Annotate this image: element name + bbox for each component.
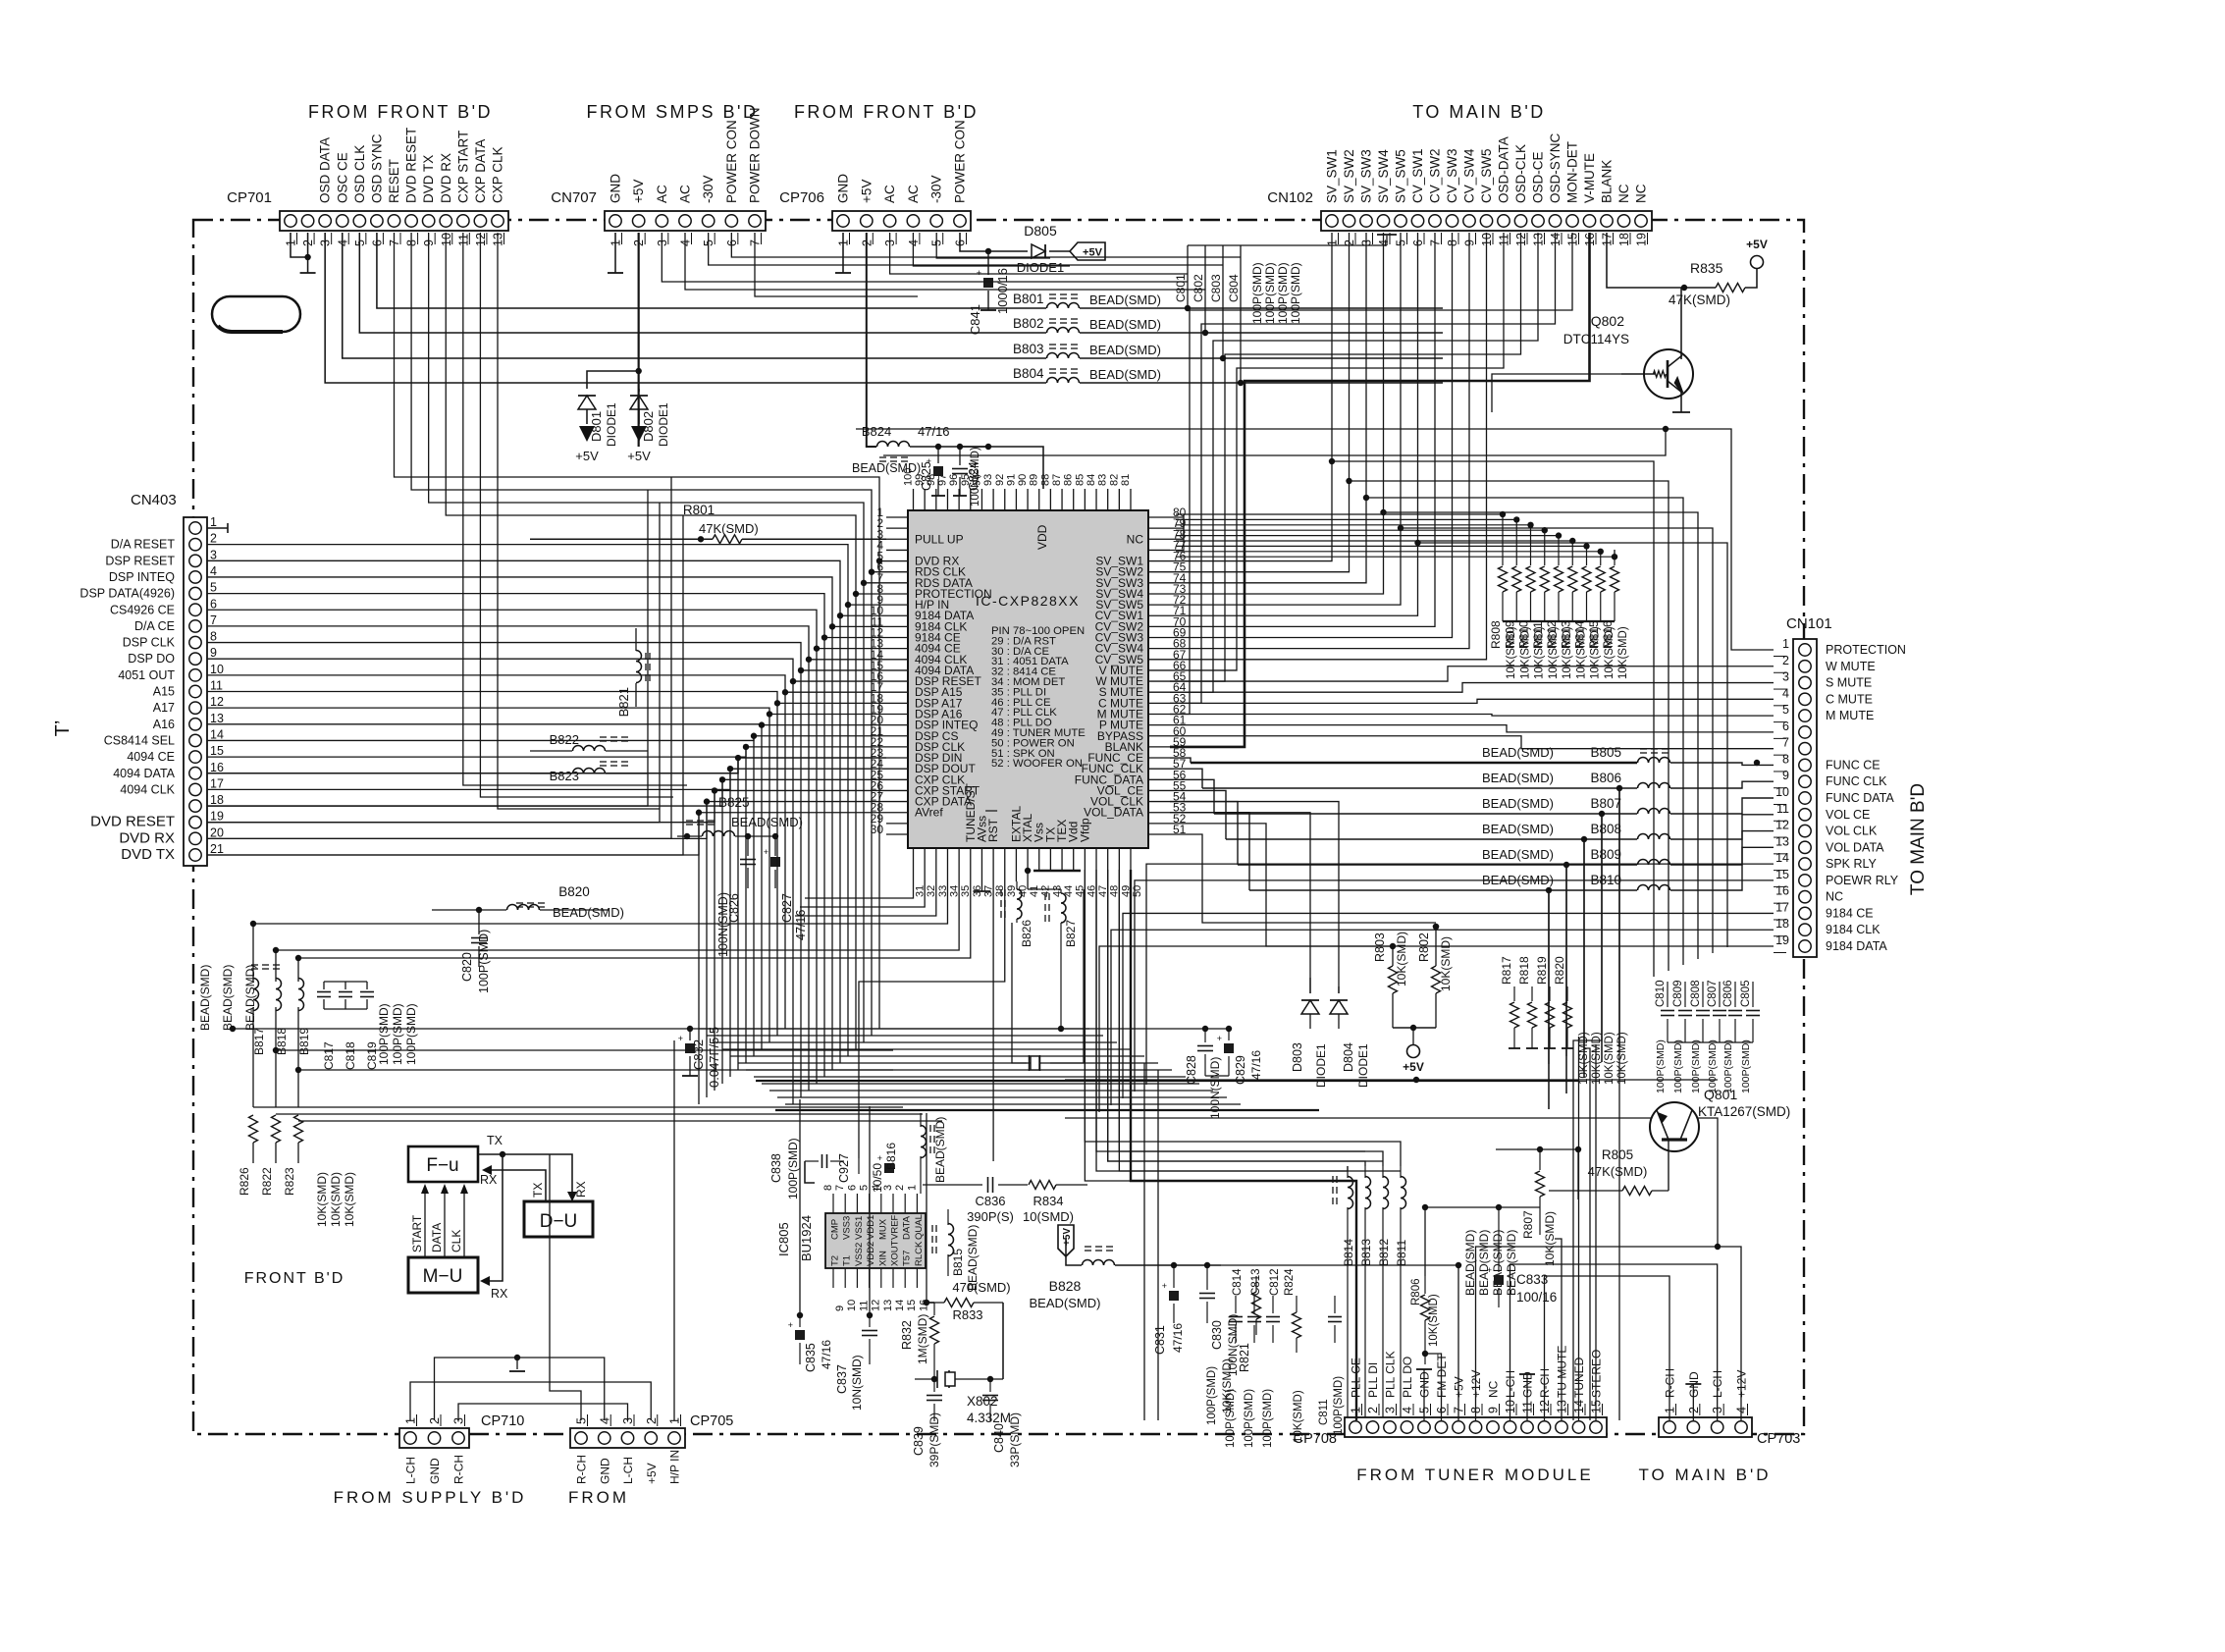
svg-text:OSD-CLK: OSD-CLK <box>1513 144 1528 203</box>
svg-text:TX: TX <box>531 1183 545 1198</box>
svg-text:4.332M: 4.332M <box>967 1411 1011 1425</box>
svg-text:91: 91 <box>1005 474 1017 486</box>
svg-text:9: 9 <box>1782 769 1789 782</box>
svg-text:7: 7 <box>834 1185 846 1191</box>
IC right pin59 blank long wire right <box>1170 746 1245 748</box>
svg-text:C811: C811 <box>1318 1399 1330 1425</box>
svg-text:BLANK: BLANK <box>1600 160 1615 203</box>
svg-text:AVref: AVref <box>915 806 943 820</box>
svg-text:FROM TUNER MODULE: FROM TUNER MODULE <box>1356 1465 1593 1484</box>
Q802 base feed wire <box>1492 374 1621 412</box>
svg-text:Vfdp: Vfdp <box>1078 818 1091 842</box>
svg-text:11: 11 <box>858 1301 870 1311</box>
bundle verticals down to tuner left pins <box>1157 1070 1159 1420</box>
svg-text:86: 86 <box>1063 474 1075 486</box>
IC pins 46-50 deep drops to tuner plls <box>1085 870 1348 1181</box>
horizontal taps to R808-R816 tops <box>1176 513 1503 515</box>
svg-text:GND: GND <box>609 174 623 203</box>
svg-text:84: 84 <box>1086 474 1097 486</box>
wire ladder to IC pin 26 <box>207 790 886 822</box>
svg-text:R805: R805 <box>1602 1147 1633 1162</box>
svg-text:B813: B813 <box>1359 1239 1373 1266</box>
svg-text:CV_SW3: CV_SW3 <box>1445 148 1459 203</box>
svg-text:BEAD(SMD): BEAD(SMD) <box>553 905 624 920</box>
capacitors C826 C827 <box>745 833 751 839</box>
wire CN102 pin 15 staircase to IC <box>1170 233 1572 714</box>
svg-text:B823: B823 <box>550 769 579 783</box>
beads B817 B818 B819 with caps C817-C819 <box>252 967 254 982</box>
svg-text:BEAD(SMD): BEAD(SMD) <box>1089 367 1161 382</box>
bead B808 row <box>1226 838 1637 840</box>
connector CP703 <box>1659 1417 1752 1437</box>
wire B824 to IC VDD <box>987 446 989 448</box>
svg-text:L-CH: L-CH <box>621 1457 635 1484</box>
svg-text:+: + <box>1162 1281 1167 1291</box>
svg-text:C839: C839 <box>912 1426 926 1456</box>
svg-text:R819: R819 <box>1535 956 1549 985</box>
svg-text:1M(SMD): 1M(SMD) <box>916 1314 929 1364</box>
svg-text:B803: B803 <box>1013 342 1044 356</box>
svg-text:2: 2 <box>1782 654 1789 667</box>
wire bottom bundle row 6 <box>738 1062 1158 1064</box>
svg-text:10K(SMD): 10K(SMD) <box>1562 626 1573 679</box>
capacitors C828 C829 <box>1202 1026 1208 1032</box>
svg-text:B802: B802 <box>1013 316 1044 331</box>
svg-text:18: 18 <box>210 793 224 807</box>
svg-text:470(SMD): 470(SMD) <box>952 1280 1010 1295</box>
svg-text:3: 3 <box>210 548 217 561</box>
svg-text:100P(SMD): 100P(SMD) <box>391 1003 404 1065</box>
svg-text:C804: C804 <box>1227 274 1241 302</box>
svg-text:SV_SW4: SV_SW4 <box>1376 149 1391 203</box>
svg-text:S MUTE: S MUTE <box>1826 676 1872 690</box>
svg-text:AC: AC <box>906 185 921 203</box>
svg-text:100P(SMD): 100P(SMD) <box>786 1138 800 1199</box>
svg-text:10K(SMD): 10K(SMD) <box>1395 932 1408 986</box>
svg-text:GND: GND <box>428 1458 442 1484</box>
svg-text:19: 19 <box>210 810 224 824</box>
svg-text:PLL DI: PLL DI <box>1366 1362 1380 1398</box>
svg-text:FUNC CE: FUNC CE <box>1826 758 1881 772</box>
capacitor C835 47/16 <box>799 1315 801 1327</box>
svg-text:RST: RST <box>986 818 1000 842</box>
svg-text:OSC CE: OSC CE <box>335 152 349 203</box>
capacitors C812 C813 C814 and resistor R824 <box>1235 1296 1237 1313</box>
svg-text:F−u: F−u <box>426 1155 458 1176</box>
stadium blob <box>212 296 300 332</box>
svg-text:TX: TX <box>487 1134 503 1147</box>
svg-text:DSP CLK: DSP CLK <box>123 636 176 650</box>
svg-text:96: 96 <box>948 474 960 486</box>
svg-text:QUAL: QUAL <box>914 1214 925 1240</box>
bead B828 with +5V flag <box>1058 1225 1074 1256</box>
svg-text:12: 12 <box>871 1300 882 1311</box>
CP710 CP705 risers <box>410 1382 651 1420</box>
svg-text:R822: R822 <box>260 1167 274 1196</box>
wire CN101 pin 17 to bottom bundle <box>1123 913 1774 1098</box>
wire CN101 pin 14 to bottom bundle <box>1146 864 1774 1085</box>
svg-text:8: 8 <box>210 630 217 644</box>
svg-text:PLL DO: PLL DO <box>1401 1357 1414 1398</box>
CN101 pin1 protection wire long route <box>856 429 1774 650</box>
svg-text:100P(SMD): 100P(SMD) <box>1225 1389 1237 1448</box>
bead B805 row <box>1191 762 1637 764</box>
svg-text:RLCK: RLCK <box>914 1241 925 1266</box>
CN403 rows 19-21 up-turn fan <box>207 490 648 806</box>
svg-text:13: 13 <box>1775 834 1789 848</box>
svg-text:83: 83 <box>1097 474 1109 486</box>
wire ladder to IC pin 21 <box>207 736 886 741</box>
svg-text:21: 21 <box>210 842 224 856</box>
svg-text:GND: GND <box>836 174 851 203</box>
IC pin37 AVss ground <box>980 870 982 891</box>
bold vss bus under IC <box>1033 870 1081 872</box>
svg-text:B826: B826 <box>1020 920 1033 947</box>
svg-text:+: + <box>788 1320 793 1330</box>
svg-text:B811: B811 <box>1395 1240 1408 1266</box>
resistor R806 10K <box>1424 1276 1426 1294</box>
long wire y464 <box>883 429 1666 455</box>
svg-text:B807: B807 <box>1590 796 1621 811</box>
svg-text:4094 DATA: 4094 DATA <box>113 767 175 780</box>
bold bundle rows <box>756 1080 1578 1082</box>
IC left pin stubs and numbers <box>886 516 908 518</box>
resistors R826 R822 R823 <box>249 1115 258 1143</box>
svg-text:D802: D802 <box>641 411 656 442</box>
svg-text:DTC114YS: DTC114YS <box>1563 332 1629 346</box>
block D-U <box>524 1201 593 1237</box>
Q801 emitter base collector wires <box>1065 1079 1718 1081</box>
svg-text:TO MAIN B'D: TO MAIN B'D <box>1412 102 1546 122</box>
svg-text:BEAD(SMD): BEAD(SMD) <box>1482 822 1554 836</box>
wire bottom bundle row 4 <box>722 1048 1131 1050</box>
svg-text:1: 1 <box>906 1185 918 1191</box>
svg-text:100P(SMD): 100P(SMD) <box>1244 1389 1255 1448</box>
svg-text:BEAD(SMD): BEAD(SMD) <box>243 965 257 1031</box>
svg-text:85: 85 <box>1074 474 1086 486</box>
wire ladder to IC pin 14 <box>207 626 886 660</box>
svg-text:BEAD(SMD): BEAD(SMD) <box>1482 796 1554 811</box>
svg-text:R-CH: R-CH <box>452 1455 466 1484</box>
svg-text:100P(SMD): 100P(SMD) <box>1707 1039 1719 1093</box>
svg-text:FROM FRONT B'D: FROM FRONT B'D <box>794 102 979 122</box>
wire CN102 pin 11 staircase to IC <box>1170 233 1504 670</box>
svg-text:RX: RX <box>491 1287 508 1301</box>
svg-text:+: + <box>1217 1034 1222 1043</box>
svg-text:DVD TX: DVD TX <box>421 155 436 203</box>
svg-text:BEAD(SMD): BEAD(SMD) <box>933 1117 947 1183</box>
svg-text:C808: C808 <box>1690 981 1702 1008</box>
svg-text:AC: AC <box>655 185 669 203</box>
svg-text:L-CH: L-CH <box>404 1457 418 1484</box>
svg-text:13: 13 <box>882 1300 894 1311</box>
svg-text:10K(SMD): 10K(SMD) <box>1617 626 1629 679</box>
svg-text:V-MUTE: V-MUTE <box>1582 153 1597 203</box>
svg-text:100P(SMD): 100P(SMD) <box>404 1003 418 1065</box>
svg-text:RX: RX <box>480 1173 498 1187</box>
svg-text:11: 11 <box>210 679 223 693</box>
wire CN101 pin 18 to bottom bundle <box>1111 930 1774 1105</box>
svg-text:10N(SMD): 10N(SMD) <box>850 1355 864 1411</box>
pll wires to beads B811-B814 <box>1085 870 1401 1166</box>
svg-text:R817: R817 <box>1500 956 1513 985</box>
wire IC pin 63 to CN101 pin 4 <box>1170 699 1774 703</box>
svg-text:+5V: +5V <box>1746 238 1768 251</box>
wire IC pin 64 to CN101 pin 3 <box>1170 683 1774 693</box>
wire IC pin 65 to CN101 pin 2 <box>1170 666 1774 681</box>
svg-text:CP701: CP701 <box>227 189 272 206</box>
svg-text:Q802: Q802 <box>1591 313 1624 329</box>
wire ladder to IC pin 19 <box>207 708 886 714</box>
arrows START DATA CLK between M-U and F-u <box>424 1190 426 1257</box>
wire CN102 pin 2 to IC pin 75 <box>1170 233 1350 572</box>
svg-text:CN403: CN403 <box>131 492 177 508</box>
svg-text:AC: AC <box>678 185 693 203</box>
svg-text:+: + <box>1487 1265 1492 1275</box>
bead B806 row <box>1202 787 1637 789</box>
svg-text:MUX: MUX <box>877 1218 888 1240</box>
svg-text:BEAD(SMD): BEAD(SMD) <box>1089 293 1161 307</box>
svg-text:CLK: CLK <box>450 1230 463 1252</box>
verticals from bundle down to IC805 <box>799 1099 801 1315</box>
svg-text:10K(SMD): 10K(SMD) <box>1534 626 1546 679</box>
bead B815 <box>931 1225 933 1232</box>
R805 wire to bundle <box>1577 1149 1579 1199</box>
svg-text:R834: R834 <box>1033 1194 1063 1208</box>
svg-text:A15: A15 <box>153 685 175 699</box>
svg-text:100/16: 100/16 <box>1516 1290 1557 1305</box>
svg-text:R832: R832 <box>900 1320 914 1350</box>
diodes D801 D802 from CN707 +5V <box>638 233 640 447</box>
svg-text:100P(SMD): 100P(SMD) <box>1690 1039 1702 1093</box>
svg-text:5: 5 <box>210 581 217 595</box>
svg-text:BEAD(SMD): BEAD(SMD) <box>852 461 921 475</box>
svg-text:CXP DATA: CXP DATA <box>473 139 488 203</box>
svg-text:C830: C830 <box>1210 1320 1224 1350</box>
svg-text:11: 11 <box>1776 802 1789 816</box>
svg-text:VSS1: VSS1 <box>854 1216 865 1240</box>
svg-text:4094 CE: 4094 CE <box>127 750 175 764</box>
ground at CP701 pins 1-2 <box>291 233 308 257</box>
svg-text:CP710: CP710 <box>481 1413 524 1429</box>
svg-text:R802: R802 <box>1417 933 1431 962</box>
svg-text:NC: NC <box>1634 184 1649 203</box>
svg-text:C801: C801 <box>1174 274 1188 302</box>
svg-text:93: 93 <box>982 474 994 486</box>
svg-text:POWER CON: POWER CON <box>724 120 739 203</box>
svg-text:C807: C807 <box>1707 981 1719 1008</box>
svg-text:BEAD(SMD): BEAD(SMD) <box>1491 1230 1505 1296</box>
svg-text:2: 2 <box>210 532 217 546</box>
svg-text:C805: C805 <box>1740 981 1752 1008</box>
svg-text:B825: B825 <box>718 795 750 810</box>
svg-text:C812: C812 <box>1269 1269 1281 1297</box>
svg-text:10K(SMD): 10K(SMD) <box>315 1172 329 1227</box>
svg-text:C806: C806 <box>1722 981 1734 1008</box>
svg-text:C810: C810 <box>1655 981 1667 1008</box>
svg-text:2: 2 <box>1366 1407 1380 1413</box>
verticals from bead rows down to tuner area <box>1618 788 1620 1420</box>
svg-text:14: 14 <box>894 1300 906 1311</box>
wire bottom bundle row 2 <box>707 1035 1103 1037</box>
svg-text:10K(SMD): 10K(SMD) <box>1604 1032 1616 1085</box>
CN707 CP706 power rails to the right <box>662 233 1188 282</box>
svg-text:15: 15 <box>1775 868 1789 881</box>
capacitor C811 100P <box>1334 1296 1336 1313</box>
svg-text:7: 7 <box>210 613 217 627</box>
wire bottom bundle row 10 <box>769 1090 1213 1092</box>
svg-text:DSP DO: DSP DO <box>128 652 175 666</box>
svg-text:9184 DATA: 9184 DATA <box>1826 939 1887 953</box>
wire IC pin 60 to CN101 pin 7 <box>1170 736 1774 749</box>
wire ladder to IC pin 7 <box>429 233 886 583</box>
svg-text:H/P IN: H/P IN <box>668 1450 682 1484</box>
svg-text:16: 16 <box>210 761 224 774</box>
wire CN102 pin 12 staircase to IC <box>1170 233 1521 681</box>
svg-text:100P(SMD): 100P(SMD) <box>1655 1039 1667 1093</box>
svg-text:R835: R835 <box>1690 260 1723 276</box>
svg-text:B804: B804 <box>1013 366 1044 381</box>
svg-text:T57: T57 <box>902 1251 913 1266</box>
svg-text:RX: RX <box>574 1181 588 1198</box>
board border frame (dash-dot) <box>193 220 1804 1434</box>
wire ladder to IC pin 9 <box>207 545 886 605</box>
svg-text:VSS2: VSS2 <box>854 1243 865 1266</box>
svg-text:C833: C833 <box>1516 1272 1548 1287</box>
svg-text:87: 87 <box>1051 474 1063 486</box>
svg-text:+5V: +5V <box>627 449 651 463</box>
svg-text:C838: C838 <box>769 1153 783 1183</box>
svg-text:4: 4 <box>1782 686 1789 700</box>
svg-text:C835: C835 <box>804 1343 818 1372</box>
svg-text:R806: R806 <box>1410 1279 1422 1306</box>
svg-text:A17: A17 <box>153 701 175 715</box>
svg-text:DSP DATA(4926): DSP DATA(4926) <box>79 587 175 601</box>
wire ladder to IC pin 18 <box>207 692 886 704</box>
svg-text:R-CH: R-CH <box>575 1455 589 1484</box>
extra bundle horizontals left <box>273 1047 279 1053</box>
svg-text:100P(SMD): 100P(SMD) <box>1289 262 1302 324</box>
svg-text:B815: B815 <box>951 1249 965 1276</box>
svg-text:BEAD(SMD): BEAD(SMD) <box>1482 847 1554 862</box>
crystal X802 4.332M <box>915 1378 934 1380</box>
bead B810 row <box>1249 889 1637 891</box>
wire CN102 pin 6 to IC pin 71 <box>1170 233 1418 615</box>
svg-text:R833: R833 <box>952 1307 982 1322</box>
nested L junctions from CN102 verticals to right side <box>1329 458 1335 464</box>
capacitor C832 0.047F <box>687 1026 693 1032</box>
wire ladder to IC pin 20 <box>207 723 886 726</box>
bottom bundle long horizontals far left <box>253 1106 903 1108</box>
svg-text:BU1924: BU1924 <box>799 1215 814 1261</box>
IC pin38 39 wires <box>992 870 994 1161</box>
svg-text:10K(SMD): 10K(SMD) <box>1575 626 1587 679</box>
svg-text:FUNC CLK: FUNC CLK <box>1826 774 1887 788</box>
wire CN102 pin 9 to IC pin 68 <box>1170 233 1469 649</box>
wire CN102 pin 14 staircase to IC <box>1170 233 1556 703</box>
svg-text:W MUTE: W MUTE <box>1826 660 1876 673</box>
svg-text:BEAD(SMD): BEAD(SMD) <box>731 815 803 829</box>
svg-text:88: 88 <box>1039 474 1051 486</box>
wire CN102 pin 3 to IC pin 74 <box>1170 233 1366 583</box>
svg-text:IC805: IC805 <box>776 1222 791 1256</box>
resistors R802 R803 to +5V <box>1392 946 1394 966</box>
svg-text:100P(SMD): 100P(SMD) <box>1333 1376 1345 1435</box>
svg-text:FUNC DATA: FUNC DATA <box>1826 791 1894 805</box>
svg-text:CS8414 SEL: CS8414 SEL <box>104 733 175 747</box>
svg-text:FRONT B'D: FRONT B'D <box>244 1270 345 1287</box>
crystal X801 symbol near IC <box>1029 1055 1031 1071</box>
svg-text:VOL DATA: VOL DATA <box>1826 840 1884 854</box>
svg-text:VOL_DATA: VOL_DATA <box>1084 806 1143 820</box>
svg-text:CP705: CP705 <box>690 1413 733 1429</box>
svg-text:SV_SW5: SV_SW5 <box>1394 149 1408 203</box>
block M-U <box>408 1257 478 1293</box>
svg-text:CMP: CMP <box>830 1219 841 1240</box>
svg-text:C803: C803 <box>1209 274 1223 302</box>
svg-text:3: 3 <box>1384 1407 1398 1413</box>
svg-text:C813: C813 <box>1250 1269 1262 1297</box>
svg-text:6: 6 <box>846 1185 858 1191</box>
svg-text:RESET: RESET <box>387 159 401 203</box>
svg-text:12: 12 <box>1775 819 1789 832</box>
svg-text:C818: C818 <box>344 1041 357 1070</box>
svg-text:BEAD(SMD): BEAD(SMD) <box>1089 317 1161 332</box>
wire ladder to IC pin 8 <box>446 233 886 594</box>
svg-text:+: + <box>678 1034 683 1043</box>
svg-text:47/16: 47/16 <box>820 1340 833 1369</box>
svg-text:SV_SW2: SV_SW2 <box>1342 149 1356 203</box>
wire IC pin 61 to CN101 pin 6 <box>1170 725 1774 732</box>
svg-text:OSD-SYNC: OSD-SYNC <box>1548 133 1563 203</box>
svg-text:9184 CLK: 9184 CLK <box>1826 923 1881 936</box>
bead B807 row <box>1214 813 1637 815</box>
resistors R808-R816 pull-up array <box>1502 550 1504 565</box>
svg-text:D801: D801 <box>589 411 604 442</box>
stub at CN403 pin1 <box>207 527 228 529</box>
wire CN102 pin 4 to IC pin 73 <box>1170 233 1384 594</box>
svg-text:20: 20 <box>210 826 224 839</box>
wire ladder to IC pin 12 <box>207 594 886 638</box>
svg-text:DSP RESET: DSP RESET <box>105 554 175 567</box>
svg-text:100P(SMD): 100P(SMD) <box>377 1003 391 1065</box>
svg-text:10: 10 <box>1775 785 1789 799</box>
svg-text:10K(SMD): 10K(SMD) <box>1543 1211 1557 1266</box>
svg-text:XOUT: XOUT <box>890 1240 901 1266</box>
svg-text:10K(SMD): 10K(SMD) <box>1590 626 1602 679</box>
svg-text:10/50: 10/50 <box>871 1163 884 1193</box>
wire IC pin 54 to bead row <box>1170 802 1238 865</box>
svg-text:30: 30 <box>871 823 884 836</box>
svg-text:4: 4 <box>210 564 217 578</box>
svg-text:41: 41 <box>1029 885 1040 897</box>
svg-text:R803: R803 <box>1373 933 1387 962</box>
svg-text:1: 1 <box>210 515 217 529</box>
left column verticals from beads B817-19 up <box>253 924 790 967</box>
svg-text:50: 50 <box>1132 885 1143 897</box>
wire CN102 pin 10 to IC pin 67 <box>1170 233 1487 660</box>
capacitor C837 10N <box>869 1315 871 1327</box>
svg-text:12: 12 <box>210 695 224 709</box>
resistors R817-R820 <box>1513 986 1515 1001</box>
svg-text:1: 1 <box>1782 637 1789 651</box>
ground at CP706 pin1 <box>842 233 844 273</box>
svg-text:4: 4 <box>1401 1407 1414 1413</box>
svg-text:B809: B809 <box>1590 847 1621 862</box>
capacitor C839 39P <box>933 1379 935 1392</box>
svg-text:100P(SMD): 100P(SMD) <box>1276 262 1290 324</box>
svg-text:CV_SW2: CV_SW2 <box>1428 148 1443 203</box>
